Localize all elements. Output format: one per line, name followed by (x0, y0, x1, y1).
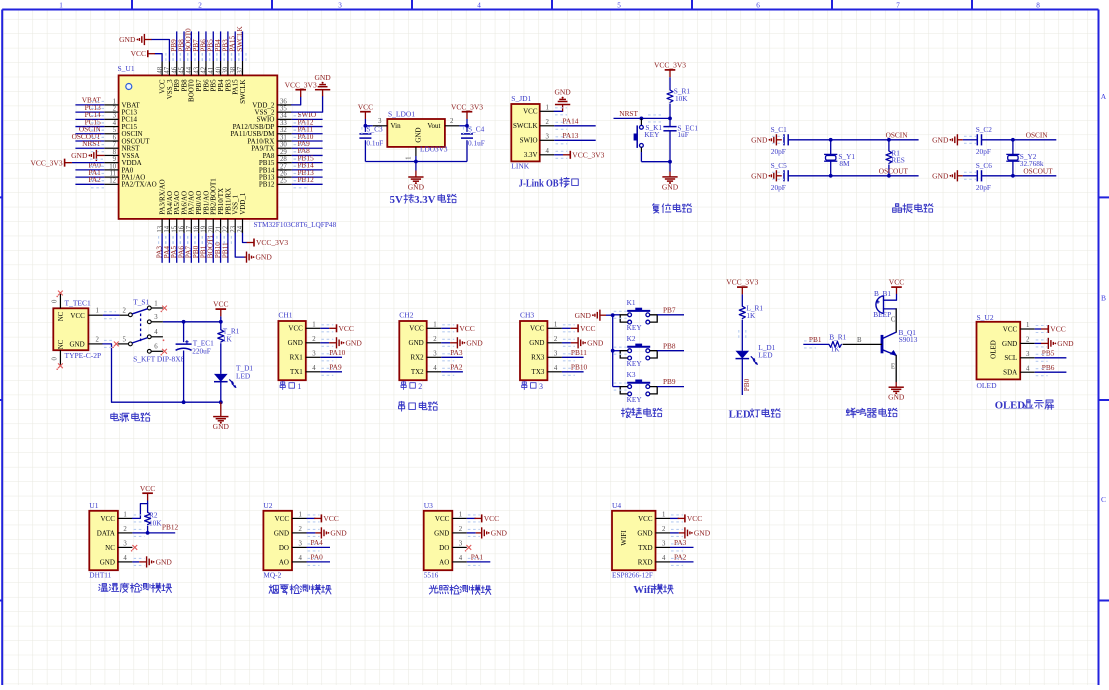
svg-text:B: B (1101, 294, 1106, 303)
svg-text:42: 42 (201, 66, 208, 73)
svg-text:3: 3 (459, 541, 463, 548)
svg-text:U1: U1 (89, 501, 98, 510)
svg-text:PA2: PA2 (674, 553, 687, 562)
power port VCC at U1 pin 48 (131, 49, 163, 61)
wire net PA4 (U1 pin 14) (162, 233, 173, 262)
wire net PB7 (614, 305, 684, 318)
svg-text:GND: GND (751, 171, 768, 180)
LDO ground pin 1 (406, 147, 416, 160)
svg-text:GND: GND (932, 135, 949, 144)
ground GND (CH1) (320, 337, 362, 348)
svg-text:AO: AO (439, 558, 449, 566)
svg-text:VCC: VCC (484, 514, 499, 523)
svg-text:OSCOUT: OSCOUT (879, 167, 909, 176)
wire net PA10 (U1 pin 31) (292, 132, 323, 145)
key K3 (613, 370, 658, 404)
wire net PB8 (614, 341, 684, 354)
svg-text:2: 2 (1026, 337, 1030, 344)
svg-text:44: 44 (186, 66, 193, 73)
svg-text:2: 2 (418, 382, 422, 391)
svg-text:9: 9 (113, 156, 117, 163)
svg-text:20pF: 20pF (976, 183, 991, 192)
svg-text:SWCLK: SWCLK (239, 79, 247, 104)
svg-text:1: 1 (299, 512, 302, 519)
wire net NRST (U1 pin 7) (75, 139, 104, 152)
svg-text:2: 2 (312, 336, 316, 343)
wire net PC14 (U1 pin 3) (75, 110, 104, 123)
ground GND (keys) (575, 310, 613, 321)
svg-text:VCC: VCC (288, 325, 303, 333)
transistor Q1 S9013 (882, 328, 918, 356)
connector CH3 body (520, 311, 547, 381)
svg-text:KEY: KEY (644, 130, 660, 139)
svg-text:PA3: PA3 (674, 538, 687, 547)
svg-text:ESP8266-12F: ESP8266-12F (612, 570, 653, 579)
svg-text:SDA: SDA (1003, 369, 1017, 377)
title key circuit (621, 408, 662, 418)
wire net PA13 (554, 131, 596, 144)
svg-text:CH2: CH2 (399, 311, 413, 320)
svg-text:U3: U3 (424, 501, 433, 510)
svg-text:T_TEC1: T_TEC1 (65, 299, 91, 308)
U3 pin stubs (452, 512, 467, 563)
svg-text:GND: GND (529, 339, 544, 347)
svg-text:48: 48 (157, 66, 164, 73)
svg-text:10: 10 (109, 163, 116, 170)
svg-text:VCC_3V3: VCC_3V3 (726, 278, 758, 287)
svg-text:GND: GND (888, 393, 905, 402)
TEC1 pin 1 (88, 308, 103, 316)
svg-text:8: 8 (1036, 2, 1040, 10)
wire VCC_3V3 to R1 (669, 77, 671, 90)
svg-text:K2: K2 (627, 334, 636, 343)
U2 pin stubs (292, 512, 307, 563)
svg-text:3: 3 (433, 351, 437, 358)
svg-text:VCC_3V3: VCC_3V3 (654, 61, 686, 70)
svg-text:OLED: OLED (995, 400, 1026, 412)
svg-text:PB8: PB8 (663, 341, 676, 350)
power port VCC (U3) (467, 514, 499, 523)
svg-text:2: 2 (299, 526, 303, 533)
svg-text:GND: GND (330, 529, 347, 538)
power port VCC_3V3 at U1 pin 9 (31, 158, 105, 167)
svg-text:VCC: VCC (889, 278, 904, 287)
wire TEC1 VCC to switch (103, 312, 120, 319)
svg-text:34: 34 (280, 113, 287, 120)
svg-text:S_C2: S_C2 (976, 125, 993, 134)
wire net PB11 (U1 pin 22) (220, 233, 231, 262)
connector JD1 body (511, 94, 539, 171)
LDO pin 3 (373, 118, 388, 126)
svg-text:GND: GND (751, 135, 768, 144)
wire net OSCIN (U1 pin 5) (75, 125, 104, 138)
svg-text:GND: GND (554, 88, 571, 97)
svg-text:35: 35 (280, 106, 287, 113)
svg-text:RX3: RX3 (531, 354, 545, 362)
svg-text:DO: DO (439, 544, 449, 552)
sensor module U3 body (424, 501, 453, 579)
svg-text:GND: GND (1002, 340, 1017, 348)
svg-text:30: 30 (280, 142, 287, 149)
wire TEC1 GND to bottom rail (103, 340, 114, 402)
svg-text:25: 25 (280, 178, 287, 185)
svg-text:E: E (891, 364, 895, 371)
svg-text:Vin: Vin (391, 122, 402, 130)
svg-text:SWIO: SWIO (520, 137, 538, 145)
wire net PA11 (U1 pin 32) (292, 125, 323, 138)
power port VCC (U2) (307, 514, 339, 523)
svg-text:5: 5 (617, 2, 621, 10)
svg-text:NRST: NRST (82, 139, 101, 148)
wire to GND (reset) (669, 162, 671, 177)
wire net PA9 (U1 pin 30) (292, 139, 323, 152)
wire net BOOT1 (U1 pin 20) (206, 233, 217, 262)
svg-text:LDO3V3: LDO3V3 (420, 145, 448, 154)
svg-text:MQ-2: MQ-2 (263, 570, 281, 579)
svg-text:VCC: VCC (339, 324, 354, 333)
svg-text:KEY: KEY (627, 323, 643, 332)
wire power ground rail (112, 400, 223, 404)
svg-text:OLED: OLED (990, 340, 998, 359)
wire net OSCIN (788, 131, 918, 142)
wire net PB9 (614, 377, 684, 390)
wire net PC13 (U1 pin 2) (75, 103, 104, 116)
svg-text:1: 1 (459, 512, 462, 519)
wire R1 to NRST node (669, 104, 671, 119)
ground GND (U2) (307, 527, 348, 538)
microcontroller U1 STM32F103C8T6 body (119, 75, 278, 219)
wire net PA2 (CH2 TX) (441, 362, 463, 375)
wire net PB9 (top) (169, 31, 180, 61)
svg-text:GND: GND (156, 558, 173, 567)
TEC1 NC pin 0 (bottom) (52, 350, 63, 370)
svg-text:19: 19 (201, 225, 208, 232)
LED L_D1 (736, 320, 776, 365)
wire net PA9 (CH1 TX) (320, 362, 342, 375)
wire net PA7 (U1 pin 17) (184, 233, 195, 262)
wire net PB5 (1035, 348, 1067, 361)
title buzzer circuit (846, 408, 897, 418)
wire net PB6 (1035, 363, 1067, 376)
wire net PC15 (U1 pin 4) (75, 117, 104, 130)
svg-text:VCC: VCC (1003, 325, 1018, 333)
svg-text:2: 2 (459, 526, 463, 533)
svg-text:PB12: PB12 (298, 175, 315, 184)
svg-text:1uF: 1uF (677, 130, 688, 139)
wire net PA1 (U1 pin 11) (75, 168, 104, 181)
connector CH2 body (399, 311, 426, 381)
svg-text:VCC: VCC (530, 325, 545, 333)
wire net PA12 (U1 pin 33) (292, 117, 323, 130)
resistor R2 10K (145, 510, 163, 533)
svg-text:S_C5: S_C5 (771, 161, 788, 170)
svg-text:2: 2 (123, 308, 127, 315)
svg-text:U2: U2 (263, 501, 272, 510)
wire net PA6 (U1 pin 16) (176, 233, 187, 262)
TEC1 pin 2 (88, 336, 103, 344)
svg-text:20pF: 20pF (976, 147, 991, 156)
power port VCC (OLED) (1035, 325, 1066, 334)
svg-text:VCC: VCC (100, 515, 115, 523)
svg-text:GND: GND (1057, 339, 1074, 348)
svg-text:10K: 10K (675, 94, 688, 103)
JD1 pin stubs (540, 105, 555, 156)
wire net PB1 (U1 pin 19) (198, 233, 209, 262)
power port VCC_3V3 (JD1) (554, 150, 604, 159)
svg-text:6: 6 (113, 134, 117, 141)
svg-text:24: 24 (237, 225, 244, 232)
svg-text:K1: K1 (627, 298, 636, 307)
wire net PB6 (top) (198, 31, 209, 61)
svg-text:VCC: VCC (323, 514, 338, 523)
svg-text:10K: 10K (149, 518, 162, 527)
svg-text:RX2: RX2 (410, 354, 424, 362)
wire net PB13 (U1 pin 26) (292, 168, 323, 181)
svg-text:CH1: CH1 (278, 311, 292, 320)
svg-text:PA2: PA2 (88, 175, 101, 184)
svg-text:SWCLK: SWCLK (235, 26, 244, 52)
title wifi module (633, 584, 673, 596)
wire net PB4 (top) (213, 31, 224, 61)
connector TEC1 TYPE-C body (53, 299, 101, 361)
power port VCC_3V3 (reset) (654, 61, 686, 78)
wire VCC to R2 and pin1 (132, 501, 147, 522)
svg-text:37: 37 (237, 66, 244, 73)
label 串口2 (401, 381, 422, 391)
resistor R1 RES (886, 140, 905, 176)
svg-text:GND: GND (694, 529, 711, 538)
ground GND (U3) (467, 527, 508, 538)
svg-text:PB6: PB6 (1042, 363, 1055, 372)
svg-text:LED: LED (729, 408, 751, 420)
title serial circuit (399, 401, 438, 411)
svg-text:OSCOUT: OSCOUT (1023, 167, 1053, 176)
svg-text:1K: 1K (223, 335, 233, 344)
svg-text:SCL: SCL (1004, 354, 1017, 362)
svg-text:3: 3 (554, 351, 558, 358)
svg-text:LED: LED (758, 351, 772, 360)
svg-text:PA1: PA1 (471, 553, 484, 562)
ground GND (C5) (751, 170, 782, 181)
svg-text:3: 3 (312, 351, 316, 358)
svg-text:NC: NC (58, 339, 65, 349)
svg-text:S_C6: S_C6 (976, 161, 993, 170)
svg-text:23: 23 (230, 225, 237, 232)
ground GND (power) (213, 402, 230, 431)
ground GND (U4) (670, 527, 711, 538)
svg-text:3: 3 (113, 113, 117, 120)
svg-text:VCC: VCC (358, 102, 373, 111)
power port VCC_3V3 (LDO output) (451, 102, 483, 126)
wire net PA1 (U3) (467, 553, 491, 566)
svg-text:5: 5 (113, 127, 117, 134)
svg-text:WIFI: WIFI (620, 530, 628, 546)
svg-text:39: 39 (223, 66, 230, 73)
svg-text:2: 2 (450, 118, 454, 125)
svg-text:1: 1 (123, 512, 126, 519)
no-connect (DHT11 NC) (131, 545, 137, 552)
svg-text:3: 3 (1026, 351, 1030, 358)
svg-text:GND: GND (491, 529, 508, 538)
svg-text:4: 4 (154, 329, 158, 336)
svg-text:4: 4 (123, 555, 127, 562)
svg-text:14: 14 (164, 225, 171, 232)
svg-text:47: 47 (164, 66, 171, 73)
svg-text:VCC: VCC (687, 514, 702, 523)
svg-text:S_U2: S_U2 (977, 313, 994, 322)
wire net PB3 (top) (220, 31, 231, 61)
svg-text:C: C (891, 317, 896, 324)
ground GND (buzzer) (888, 382, 905, 402)
svg-text:PB5: PB5 (1042, 348, 1055, 357)
svg-text:B: B (857, 337, 862, 344)
svg-text:45: 45 (179, 66, 186, 73)
svg-text:1: 1 (546, 105, 549, 112)
svg-text:1: 1 (662, 512, 665, 519)
svg-text:3.3V: 3.3V (524, 151, 538, 159)
svg-text:27: 27 (280, 163, 287, 170)
svg-text:7: 7 (896, 2, 900, 10)
svg-text:1: 1 (406, 157, 413, 160)
svg-text:2: 2 (198, 2, 202, 10)
svg-text:6: 6 (154, 344, 158, 351)
svg-text:VCC: VCC (275, 515, 290, 523)
svg-text:13: 13 (157, 225, 164, 232)
svg-text:PA10: PA10 (329, 348, 345, 357)
wire net PB7 (top) (191, 31, 202, 61)
power port VCC_3V3 (LED) (726, 278, 758, 295)
buzzer B_B1 BEEP (873, 289, 896, 319)
resistor S_R1 10K (667, 87, 690, 103)
svg-text:GND: GND (314, 73, 331, 82)
svg-text:U4: U4 (612, 501, 621, 510)
svg-text:PA0: PA0 (311, 553, 324, 562)
svg-text:B_R1: B_R1 (829, 333, 846, 342)
svg-text:LED: LED (236, 371, 250, 380)
svg-text:220uF: 220uF (192, 346, 211, 355)
CH1 pin stubs (306, 322, 321, 373)
svg-text:NC: NC (58, 311, 65, 321)
svg-text:GND: GND (415, 127, 423, 142)
svg-text:11: 11 (109, 171, 116, 178)
wire net OSCOUT (788, 167, 918, 178)
svg-text:15: 15 (171, 225, 178, 232)
capacitor C4 (461, 125, 485, 162)
svg-text:3: 3 (299, 541, 303, 548)
svg-text:1: 1 (154, 300, 157, 307)
no-connect (U3 pin 3) (465, 545, 471, 552)
svg-text:2: 2 (113, 106, 117, 113)
wire switch pin3 to VCC node (163, 320, 223, 324)
wire net PA3 (U4) (670, 538, 694, 551)
ground GND (CH2) (441, 337, 483, 348)
svg-text:LINK: LINK (511, 162, 529, 171)
svg-text:2: 2 (96, 336, 100, 343)
title J-Link OB (519, 178, 579, 190)
svg-text:VCC: VCC (580, 324, 595, 333)
svg-text:KEY: KEY (627, 395, 643, 404)
svg-text:3: 3 (539, 382, 543, 391)
svg-text:2: 2 (433, 336, 437, 343)
title light detection module (429, 585, 491, 594)
svg-text:OLED: OLED (977, 381, 998, 390)
svg-text:S_C1: S_C1 (771, 125, 788, 134)
svg-text:PA3: PA3 (450, 348, 463, 357)
svg-text:PA2: PA2 (450, 362, 463, 371)
LDO pin 2 (445, 118, 460, 126)
part name STM32F103C8T6_LQFP48 (254, 220, 337, 229)
svg-text:22: 22 (223, 225, 230, 232)
key K1 (613, 298, 658, 332)
svg-text:VCC: VCC (1050, 325, 1065, 334)
designator S_U1 (118, 64, 135, 73)
svg-text:46: 46 (171, 66, 178, 73)
OLED pin stubs (1020, 322, 1034, 372)
wire VSS_1 to GND (235, 233, 272, 262)
capacitor S_C2 20pF (963, 125, 992, 156)
svg-text:VCC_3V3: VCC_3V3 (451, 102, 483, 111)
svg-text:VCC: VCC (140, 484, 155, 493)
svg-text:PB7: PB7 (663, 305, 676, 314)
wire buzzer to collector (891, 309, 896, 332)
ground GND (OLED) (1035, 338, 1074, 349)
svg-text:GND: GND (213, 422, 230, 431)
svg-text:12: 12 (109, 178, 116, 185)
ground GND at U1 pin 8 (71, 150, 104, 161)
svg-text:3.3V: 3.3V (414, 194, 436, 206)
svg-text:PB10: PB10 (571, 362, 588, 371)
sensor module U4 body (612, 501, 656, 579)
svg-text:VCC: VCC (131, 49, 146, 58)
svg-text:1K: 1K (831, 345, 841, 354)
title LED circuit (729, 408, 781, 420)
svg-text:S_JD1: S_JD1 (511, 94, 531, 103)
wire net PA2 (U1 pin 12) (75, 175, 104, 188)
svg-text:VCC_3V3: VCC_3V3 (256, 238, 288, 247)
svg-text:2: 2 (662, 526, 666, 533)
svg-text:26: 26 (280, 171, 287, 178)
title crystal circuit (893, 204, 933, 213)
wire Vout to VCC_3V3 and C4 (459, 124, 469, 128)
svg-text:VCC_3V3: VCC_3V3 (572, 150, 604, 159)
svg-text:5516: 5516 (424, 570, 439, 579)
svg-text:PB0: PB0 (742, 378, 751, 391)
svg-text:4: 4 (459, 555, 463, 562)
svg-text:Vout: Vout (427, 122, 440, 130)
title smoke detection module (269, 585, 331, 595)
svg-text:3: 3 (338, 2, 342, 10)
title 5V to 3.3V (390, 194, 457, 206)
svg-text:TYPE-C-2P: TYPE-C-2P (65, 351, 102, 360)
wire net OSCIN (2) (982, 131, 1057, 142)
svg-text:PA4: PA4 (311, 538, 324, 547)
TEC1 NC pin 0 (top) (52, 291, 63, 309)
ground GND (C2) (932, 134, 963, 145)
svg-text:KEY: KEY (627, 359, 643, 368)
svg-text:1K: 1K (746, 311, 756, 320)
svg-text:GND: GND (466, 338, 483, 347)
svg-text:GND: GND (587, 338, 604, 347)
svg-text:GND: GND (119, 35, 136, 44)
svg-text:5: 5 (123, 336, 127, 343)
svg-text:T_S1: T_S1 (133, 298, 150, 307)
svg-text:BEEP: BEEP (873, 310, 891, 319)
wire net SWIO (U1 pin 34) (292, 110, 323, 123)
svg-text:VCC: VCC (459, 324, 474, 333)
U1 pin names (122, 79, 276, 215)
svg-text:GND: GND (408, 182, 425, 191)
svg-text:16: 16 (179, 225, 186, 232)
